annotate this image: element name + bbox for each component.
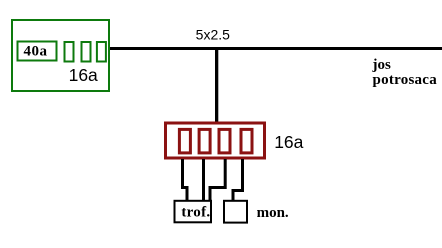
fuse 16a #2 (green)	[82, 42, 91, 62]
wire W3: breaker 3 to trof outlet	[210, 159, 225, 200]
svg-text:40a: 40a	[24, 44, 48, 60]
sub-panel box (maroon)	[166, 123, 265, 158]
main fuse panel box (green)	[12, 20, 109, 91]
breaker #1 (maroon)	[179, 129, 190, 153]
svg-text:5x2.5: 5x2.5	[196, 27, 230, 43]
breaker #4 (maroon)	[241, 129, 252, 153]
breaker #3 (maroon)	[219, 129, 230, 153]
svg-text:mon.: mon.	[257, 205, 289, 221]
svg-text:jos: jos	[372, 57, 391, 73]
wire W1: breaker 1 to trof outlet	[183, 159, 188, 200]
wire W2: breaker 2 to trof outlet	[202, 159, 205, 200]
outlet box mon	[224, 201, 247, 223]
svg-text:16a: 16a	[69, 65, 98, 85]
svg-text:trof.: trof.	[181, 204, 210, 220]
outlet box trof.	[175, 201, 212, 223]
svg-text:16a: 16a	[274, 132, 303, 152]
wire: main supply bus 5x2.5	[110, 47, 442, 50]
fuse 40a box	[18, 42, 57, 61]
fuse 16a #1 (green)	[65, 42, 74, 62]
breaker #2 (maroon)	[199, 129, 210, 153]
wire W4: breaker 4 to mon outlet	[233, 159, 243, 200]
wire: vertical drop from bus to sub-panel	[215, 48, 218, 122]
svg-text:potrosaca: potrosaca	[373, 72, 438, 88]
fuse 16a #3 (green)	[97, 42, 106, 62]
